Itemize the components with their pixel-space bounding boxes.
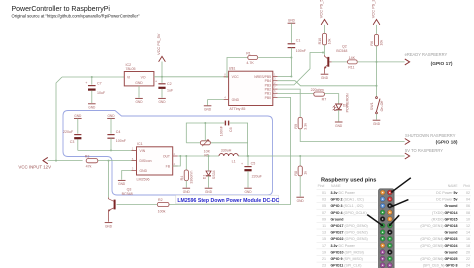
resistor R4 bbox=[180, 155, 193, 188]
svg-text:C4: C4 bbox=[116, 130, 121, 134]
pin 6 PB1 stub bbox=[273, 92, 278, 94]
op IC2 78L05 regulator bbox=[124, 63, 154, 86]
svg-text:GND: GND bbox=[373, 122, 381, 126]
pin 1 NRES stub bbox=[273, 76, 278, 78]
node R6 junction on READY line bbox=[376, 61, 378, 63]
ground for C7 bbox=[88, 104, 96, 110]
svg-text:18: 18 bbox=[466, 244, 470, 248]
svg-text:D1: D1 bbox=[202, 175, 206, 180]
svg-text:R11: R11 bbox=[348, 66, 354, 70]
svg-text:01: 01 bbox=[322, 191, 326, 195]
svg-text:R10: R10 bbox=[318, 38, 322, 45]
resistor R6 bbox=[370, 34, 383, 85]
capacitor C5 bbox=[241, 155, 263, 188]
connector pins row 6 bbox=[380, 223, 392, 228]
connector pins row 1 bbox=[380, 190, 392, 195]
svg-text:14: 14 bbox=[466, 231, 470, 235]
pin 5 PB0 stub bbox=[273, 96, 278, 98]
svg-text:16: 16 bbox=[466, 237, 470, 241]
svg-text:(SPI_CE0_N) GPIO 8: (SPI_CE0_N) GPIO 8 bbox=[423, 264, 458, 268]
svg-text:GND: GND bbox=[105, 225, 113, 229]
node switch line junction bbox=[376, 85, 378, 87]
svg-text:07: 07 bbox=[322, 211, 326, 215]
ground for IC1 bbox=[118, 180, 126, 186]
ground for D2 bbox=[335, 122, 343, 128]
svg-text:GPIO11 (SPI_CLK): GPIO11 (SPI_CLK) bbox=[331, 264, 362, 268]
node C4 rail junction bbox=[110, 149, 112, 151]
table row pins 07/08 bbox=[322, 211, 470, 215]
svg-text:19: 19 bbox=[322, 251, 326, 255]
ground for Q3 bbox=[105, 223, 113, 229]
arrow annotation 2 bbox=[391, 200, 409, 208]
svg-text:+: + bbox=[155, 79, 157, 83]
svg-text:GPIO17 (GPIO_GEN0): GPIO17 (GPIO_GEN0) bbox=[331, 224, 368, 228]
svg-text:GPIO 9 (SPI_MISO): GPIO 9 (SPI_MISO) bbox=[331, 257, 363, 261]
svg-text:14K: 14K bbox=[349, 56, 356, 60]
wire 12V riser with 45-deg bend to top rail bbox=[56, 77, 62, 161]
svg-text:23: 23 bbox=[322, 264, 326, 268]
wire C6 to right riser bbox=[230, 123, 248, 156]
wire Q3 collector to DIS line bbox=[108, 161, 110, 198]
svg-text:C6: C6 bbox=[229, 127, 233, 132]
svg-text:C3: C3 bbox=[70, 140, 75, 144]
wire IC2 GND pin down bbox=[138, 86, 140, 98]
ground (flipped) for C4 bbox=[107, 114, 115, 118]
svg-text:SHUTDOWN RASPBERRY: SHUTDOWN RASPBERRY bbox=[405, 133, 456, 138]
transistor Q3 BC548 bbox=[108, 188, 132, 222]
svg-text:+: + bbox=[85, 81, 87, 85]
svg-text:1uF: 1uF bbox=[167, 89, 174, 93]
svg-text:SS34: SS34 bbox=[212, 170, 216, 179]
svg-text:(GPIO 18): (GPIO 18) bbox=[436, 139, 458, 145]
ground for C2 bbox=[158, 98, 166, 104]
resistor R1 bbox=[226, 52, 291, 78]
svg-text:VCC: VCC bbox=[232, 75, 240, 79]
node 12V junction bbox=[55, 160, 57, 162]
pin 4 GND stub bbox=[224, 99, 229, 101]
transistor Q2 BC548 bbox=[324, 45, 347, 74]
svg-text:100nF: 100nF bbox=[116, 139, 127, 143]
svg-text:47k: 47k bbox=[86, 165, 92, 169]
svg-text:VCC PS_5V: VCC PS_5V bbox=[319, 0, 324, 18]
wire IC1 GND to ground bbox=[122, 171, 132, 180]
svg-text:R2: R2 bbox=[158, 198, 163, 202]
svg-text:VCC PS_3V: VCC PS_3V bbox=[371, 0, 376, 18]
svg-text:U$1: U$1 bbox=[229, 67, 236, 71]
wire R9 to SHUTDOWN arrow bbox=[300, 129, 404, 142]
wire NRES to C1/R1 net bbox=[278, 76, 292, 78]
svg-text:(GPIO_GEN6) GPIO25: (GPIO_GEN6) GPIO25 bbox=[420, 257, 457, 261]
node R1 to C1 junction bbox=[290, 57, 292, 59]
svg-text:POWERON: POWERON bbox=[346, 93, 350, 112]
capacitor C6 bbox=[220, 121, 234, 137]
supply VCC PS_3V (at R6) bbox=[371, 0, 380, 34]
ground for ATTiny bbox=[204, 106, 212, 112]
svg-text:R6: R6 bbox=[370, 41, 374, 46]
supply VCC PS_5V (at C2) bbox=[156, 33, 165, 78]
capacitor C4 bbox=[107, 118, 126, 150]
wire PB2 to R9 bbox=[278, 89, 301, 117]
svg-text:VCC INPUT 12V: VCC INPUT 12V bbox=[18, 164, 51, 169]
svg-text:VO: VO bbox=[141, 76, 146, 80]
IC1 LM2596 bbox=[132, 142, 178, 181]
svg-text:LM2596 Step Down Power Module: LM2596 Step Down Power Module DC-DC bbox=[177, 198, 279, 204]
svg-text:GPIO 4 (GPIO_GCLK): GPIO 4 (GPIO_GCLK) bbox=[331, 211, 367, 215]
svg-text:NAME: NAME bbox=[331, 184, 342, 188]
svg-text:330uH: 330uH bbox=[221, 148, 232, 152]
wire top rail 12V to IC2 VI bbox=[62, 76, 124, 78]
svg-text:GPIO27 (GPIO_GEN2): GPIO27 (GPIO_GEN2) bbox=[331, 231, 368, 235]
switch SW1 On-Off bbox=[370, 86, 384, 120]
table row pins 13/14 bbox=[322, 231, 470, 235]
svg-text:VI: VI bbox=[127, 76, 130, 80]
table row separators bbox=[317, 189, 472, 268]
arrow annotation 1 bbox=[391, 178, 411, 193]
svg-text:13: 13 bbox=[322, 231, 326, 235]
wire R2 to Q3 base bbox=[117, 204, 158, 206]
resistor R8 bbox=[294, 155, 307, 197]
svg-text:R1: R1 bbox=[246, 52, 251, 56]
svg-text:GND: GND bbox=[135, 100, 143, 104]
svg-text:(GPIO_GEN4) GPIO23: (GPIO_GEN4) GPIO23 bbox=[420, 237, 457, 241]
svg-text:GND: GND bbox=[107, 114, 115, 118]
resistor R10 bbox=[318, 33, 331, 55]
svg-text:ATTiny 85: ATTiny 85 bbox=[229, 107, 245, 111]
svg-text:Raspberry used pins: Raspberry used pins bbox=[321, 177, 376, 183]
svg-text:GND: GND bbox=[205, 190, 213, 194]
arrow annotation 3 bbox=[367, 215, 384, 227]
svg-text:DC Power 5v: DC Power 5v bbox=[436, 191, 457, 195]
svg-text:17: 17 bbox=[322, 244, 326, 248]
svg-text:08: 08 bbox=[466, 211, 470, 215]
svg-text:FB: FB bbox=[166, 165, 171, 169]
svg-text:PowerController to RaspberryPi: PowerController to RaspberryPi bbox=[12, 6, 111, 13]
svg-text:04: 04 bbox=[466, 198, 470, 202]
svg-text:C5: C5 bbox=[251, 161, 256, 165]
svg-text:(RXD0) GPIO15: (RXD0) GPIO15 bbox=[432, 217, 458, 221]
pin 7 PB2 stub bbox=[273, 88, 278, 90]
svg-text:Ground: Ground bbox=[445, 231, 458, 235]
svg-text:GND: GND bbox=[74, 114, 82, 118]
svg-text:GPIO 2 (SDA1 , I2C): GPIO 2 (SDA1 , I2C) bbox=[331, 198, 364, 202]
svg-text:GND: GND bbox=[140, 169, 148, 173]
connector pins row 10 bbox=[380, 250, 392, 255]
resistor R3 bbox=[85, 155, 98, 169]
supply VCC PS_5V (at R10) bbox=[319, 0, 328, 33]
inductor L1 330uH bbox=[219, 148, 238, 163]
wire 12V input horizontal bbox=[48, 160, 83, 162]
svg-text:GPIO10 (SPI_MOSI): GPIO10 (SPI_MOSI) bbox=[331, 251, 364, 255]
svg-text:GPIO22 (GPIO_GEN3): GPIO22 (GPIO_GEN3) bbox=[331, 237, 368, 241]
svg-text:LM2596: LM2596 bbox=[137, 177, 150, 181]
svg-text:Original source at "https://gi: Original source at "https://github.com/v… bbox=[12, 14, 140, 19]
node PB3/collector junction bbox=[322, 52, 324, 54]
svg-text:+: + bbox=[241, 162, 243, 166]
wire PB4 to switch net bbox=[278, 81, 377, 86]
svg-text:21: 21 bbox=[322, 257, 326, 261]
wire DIS net R3 to IC1 bbox=[98, 160, 137, 162]
ground (flipped) for C3 bbox=[74, 114, 82, 118]
resistor R9 bbox=[294, 117, 307, 129]
svg-text:C7: C7 bbox=[97, 82, 102, 86]
svg-text:100k: 100k bbox=[158, 209, 166, 213]
svg-text:5V TO RASPBERRY: 5V TO RASPBERRY bbox=[405, 148, 443, 153]
svg-text:02: 02 bbox=[466, 191, 470, 195]
connector pins row 8 bbox=[380, 236, 392, 241]
svg-text:VCC PS_5V: VCC PS_5V bbox=[156, 33, 161, 55]
svg-text:GND: GND bbox=[321, 76, 329, 80]
svg-text:OUT: OUT bbox=[163, 154, 170, 158]
svg-text:GND: GND bbox=[183, 190, 191, 194]
svg-text:PB0: PB0 bbox=[265, 96, 272, 100]
svg-text:100nF: 100nF bbox=[296, 49, 307, 53]
wire Q2 base to R11 bbox=[332, 61, 348, 63]
svg-text:220ohm: 220ohm bbox=[311, 88, 324, 92]
table row pins 19/20 bbox=[322, 251, 470, 255]
svg-text:15: 15 bbox=[322, 237, 326, 241]
svg-text:(GPIO_GEN5) GPIO24: (GPIO_GEN5) GPIO24 bbox=[420, 244, 457, 248]
svg-text:GND: GND bbox=[204, 108, 212, 112]
wire PB3 up to Q2 collector bbox=[278, 53, 323, 85]
svg-text:GND: GND bbox=[297, 199, 305, 203]
wire module input rail to IC1 VIN bbox=[78, 149, 137, 151]
svg-text:20: 20 bbox=[466, 251, 470, 255]
svg-text:C1: C1 bbox=[296, 39, 301, 43]
resistor R7 bbox=[311, 88, 339, 104]
svg-text:GND: GND bbox=[158, 100, 166, 104]
connector pins row 7 bbox=[380, 230, 392, 235]
svg-text:03: 03 bbox=[322, 198, 326, 202]
svg-text:C2: C2 bbox=[167, 82, 172, 86]
svg-text:R3: R3 bbox=[85, 155, 90, 159]
svg-text:1k: 1k bbox=[303, 171, 307, 175]
svg-text:R9: R9 bbox=[294, 124, 298, 129]
svg-text:220uF: 220uF bbox=[63, 130, 74, 134]
ground for IC2 bbox=[135, 98, 143, 104]
connector pins row 3 bbox=[380, 203, 392, 208]
svg-text:24: 24 bbox=[466, 264, 470, 268]
wire OUT to L1 bbox=[178, 155, 219, 157]
svg-text:GND: GND bbox=[244, 190, 252, 194]
svg-text:220uF: 220uF bbox=[252, 174, 263, 178]
wire ATTiny GND to ground bbox=[208, 100, 224, 106]
svg-text:(GPIO_GEN1) GPIO18: (GPIO_GEN1) GPIO18 bbox=[420, 224, 457, 228]
svg-text:330ohm: 330ohm bbox=[189, 171, 193, 184]
svg-text:Ground: Ground bbox=[331, 217, 344, 221]
svg-text:Pin#: Pin# bbox=[318, 184, 325, 188]
table row pins 09/10 bbox=[322, 217, 470, 221]
ground for R4 bbox=[183, 188, 191, 194]
svg-text:(TXD0) GPIO14: (TXD0) GPIO14 bbox=[432, 211, 458, 215]
svg-text:DC Power 5v: DC Power 5v bbox=[436, 198, 457, 202]
arrow annotation 4 bbox=[389, 215, 400, 226]
pin 2 PB3 stub bbox=[273, 84, 278, 86]
svg-text:GND: GND bbox=[135, 81, 143, 85]
IC U$1 ATTiny85 bbox=[229, 67, 273, 111]
svg-text:GND: GND bbox=[88, 106, 96, 110]
svg-text:R8: R8 bbox=[294, 171, 298, 176]
svg-text:11: 11 bbox=[322, 224, 326, 228]
connector pins row 4 bbox=[380, 210, 392, 215]
table row pins 17/18 bbox=[322, 244, 470, 248]
ground for C1 (flipped) bbox=[288, 18, 296, 23]
svg-text:10k: 10k bbox=[328, 38, 332, 44]
svg-text:22: 22 bbox=[466, 257, 470, 261]
svg-text:R4: R4 bbox=[180, 176, 184, 181]
svg-text:10k: 10k bbox=[380, 40, 384, 46]
svg-text:100nF: 100nF bbox=[220, 125, 224, 136]
table row pins 21/22 bbox=[322, 257, 470, 261]
resistor R11 bbox=[348, 56, 358, 70]
svg-text:06: 06 bbox=[466, 204, 470, 208]
svg-text:10: 10 bbox=[466, 217, 470, 221]
svg-text:4.7K: 4.7K bbox=[246, 61, 254, 65]
svg-text:eREADY RASPBERRY: eREADY RASPBERRY bbox=[405, 52, 448, 57]
diode D1 bbox=[202, 155, 215, 188]
resistor R2 bbox=[157, 198, 169, 213]
connector pins row 12 bbox=[380, 263, 392, 268]
svg-text:05: 05 bbox=[322, 204, 326, 208]
svg-text:12: 12 bbox=[466, 224, 470, 228]
module outline box (blue) bbox=[63, 111, 273, 196]
svg-text:Ground: Ground bbox=[445, 251, 458, 255]
svg-text:VIN: VIN bbox=[140, 149, 146, 153]
svg-text:10uF: 10uF bbox=[97, 91, 106, 95]
svg-text:(GPIO 17): (GPIO 17) bbox=[431, 61, 453, 67]
ground for C5 bbox=[244, 188, 252, 194]
table row pins 01/02 bbox=[322, 191, 470, 195]
svg-text:On-Off: On-Off bbox=[380, 101, 384, 112]
capacitor C1 bbox=[288, 23, 307, 76]
svg-text:3.3k: 3.3k bbox=[303, 123, 307, 130]
svg-text:NAME: NAME bbox=[448, 184, 459, 188]
ground for D1 bbox=[205, 188, 213, 194]
svg-text:3.3v DC Power: 3.3v DC Power bbox=[331, 191, 356, 195]
table row pins 05/06 bbox=[322, 204, 470, 208]
wire FB stub riser bbox=[173, 156, 181, 166]
wire 5V output line to arrow bbox=[238, 155, 405, 157]
trimmer R5 10K bbox=[200, 122, 210, 158]
wire PB0 down to R2 bbox=[169, 97, 291, 204]
wire PB1 to R7 bbox=[278, 93, 314, 95]
ground for Q2 bbox=[321, 74, 329, 80]
svg-text:L1: L1 bbox=[232, 159, 236, 163]
table row pins 15/16 bbox=[322, 237, 470, 241]
svg-text:GND: GND bbox=[288, 18, 296, 22]
svg-text:3.3v DC Power: 3.3v DC Power bbox=[331, 244, 356, 248]
capacitor C2 bbox=[155, 77, 174, 98]
table row pins 03/04 bbox=[322, 198, 470, 202]
arrow READY output bbox=[405, 59, 410, 65]
connector pins row 11 bbox=[380, 256, 392, 261]
connector pins row 9 bbox=[380, 243, 392, 248]
VCC INPUT 12V arrow bbox=[43, 157, 48, 163]
svg-text:DIS/con: DIS/con bbox=[140, 159, 152, 163]
svg-text:GPIO 3 (SCL1 , I2C): GPIO 3 (SCL1 , I2C) bbox=[331, 204, 364, 208]
svg-text:GND: GND bbox=[232, 98, 240, 102]
LED D2 POWERON bbox=[333, 93, 350, 121]
wire READY line to arrow bbox=[357, 61, 404, 63]
svg-text:09: 09 bbox=[322, 217, 326, 221]
pin 3 PB4 stub bbox=[273, 80, 278, 82]
GPIO connector strip bbox=[379, 189, 395, 268]
svg-text:R7: R7 bbox=[322, 98, 327, 102]
connector pins row 2 bbox=[380, 197, 392, 202]
ground for R8 bbox=[296, 197, 304, 203]
svg-text:BC548: BC548 bbox=[122, 192, 133, 196]
svg-text:Ground: Ground bbox=[445, 204, 458, 208]
wire FB divider loop left riser bbox=[186, 123, 224, 143]
arrow 5V TO RASPBERRY bbox=[405, 153, 410, 159]
pin 8 VCC stub bbox=[224, 76, 229, 78]
label LM2596 module title bbox=[176, 195, 280, 204]
svg-text:BC548: BC548 bbox=[336, 49, 347, 53]
wire 5V rail from IC2 VO to ATTiny VCC bbox=[154, 76, 229, 78]
svg-text:GND: GND bbox=[335, 124, 343, 128]
svg-text:78L05: 78L05 bbox=[126, 67, 136, 71]
table row pins 23/24 bbox=[322, 264, 470, 268]
svg-text:SW1: SW1 bbox=[370, 102, 374, 110]
connector pins row 5 bbox=[380, 217, 392, 222]
arrow SHUTDOWN output bbox=[405, 139, 410, 145]
svg-text:GND: GND bbox=[118, 182, 126, 186]
capacitor C3 bbox=[63, 118, 81, 150]
ground for SW1 bbox=[373, 120, 381, 126]
table row pins 11/12 bbox=[322, 224, 470, 228]
wire trimmer row bbox=[186, 142, 200, 144]
svg-text:Pin#: Pin# bbox=[463, 184, 470, 188]
svg-text:IC1: IC1 bbox=[137, 142, 143, 146]
capacitor C7 bbox=[85, 76, 106, 103]
